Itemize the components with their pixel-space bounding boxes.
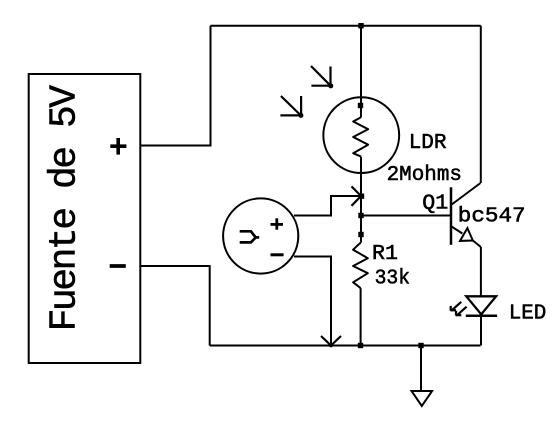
svg-text:Fuente de 5V: Fuente de 5V (44, 85, 87, 332)
LDR light arrow lower (280, 96, 303, 118)
wire base node to transistor base (361, 215, 450, 217)
transistor Q1 collector diagonal (451, 183, 481, 205)
svg-text:33k: 33k (375, 268, 411, 291)
wire R1 bottom to bottom rail (360, 288, 362, 345)
arrow head at divider tap (352, 186, 362, 205)
LDR resistor zigzag (353, 117, 368, 156)
wire to ground (420, 346, 422, 392)
svg-text:LDR: LDR (409, 132, 447, 155)
wire bottom rail (210, 345, 481, 347)
node base junction (358, 213, 363, 218)
wire meter - down to bottom rail (294, 257, 331, 346)
wire emitter down to LED (480, 247, 482, 296)
wire from source + to top rail (140, 26, 210, 146)
wire LDR bottom to divider node (360, 157, 362, 216)
minus terminal label of source (110, 264, 126, 268)
wire top rail to LDR (360, 26, 362, 118)
node R1 bottom rail junction (358, 343, 363, 348)
svg-text:Q1: Q1 (422, 193, 448, 216)
node top rail / LDR branch junction (358, 23, 363, 28)
plus terminal label of source (110, 138, 126, 155)
resistor R1 zigzag (353, 243, 368, 289)
svg-text:2Mohms: 2Mohms (387, 164, 462, 187)
meter minus sign (271, 253, 284, 256)
LED D1 triangle (466, 296, 496, 314)
node ground junction (418, 343, 423, 348)
wire node to R1 (360, 216, 362, 243)
wire LED to bottom rail (480, 314, 482, 345)
meter plus sign (271, 218, 284, 229)
LDR light arrow upper (311, 66, 333, 88)
transistor Q1 emitter with open arrow (451, 226, 481, 247)
wire from source - down to bottom rail (140, 266, 209, 346)
wire right rail down to collector (480, 26, 482, 183)
svg-text:R1: R1 (372, 243, 398, 266)
meter probe glyph inside circle (240, 231, 260, 242)
node LDR top pin (358, 103, 363, 108)
node LDR bottom pin (359, 194, 364, 199)
LDR body circle (323, 97, 399, 173)
arrow head at bottom rail (321, 336, 341, 347)
node R1 top pin (358, 232, 363, 237)
ground symbol (412, 391, 433, 406)
LED light arrow lower (456, 307, 467, 316)
wire top rail (211, 25, 481, 27)
wire meter + to divider tap (294, 196, 361, 216)
voltage source box Fuente de 5V (29, 74, 141, 363)
LED cathode bar (466, 314, 497, 317)
svg-text:bc547: bc547 (458, 206, 526, 229)
svg-text:LED: LED (509, 302, 547, 325)
adjustable source / meter circle V1 (223, 198, 298, 273)
LED light arrow upper (450, 302, 461, 311)
transistor Q1 base bar (450, 187, 453, 245)
